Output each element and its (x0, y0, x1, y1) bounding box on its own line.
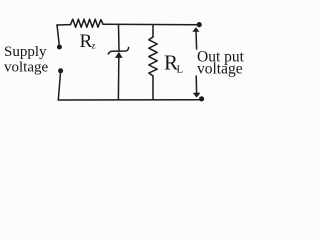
zener diode D1 anode triangle (115, 52, 123, 58)
output arrow up line (195, 31, 198, 50)
node supply terminal top (57, 45, 62, 50)
output arrow down line (195, 76, 197, 93)
wire zener branch lower (117, 58, 119, 100)
wire top-left segment (57, 24, 71, 26)
wire RL branch upper (152, 25, 154, 37)
node output terminal top (197, 22, 202, 27)
wire top from resistor to output node (103, 23, 199, 26)
zener diode D1 cathode bar (108, 47, 128, 54)
node output terminal bottom (199, 96, 204, 101)
wire left vertical lower segment (58, 73, 60, 101)
output arrowhead up (192, 27, 199, 31)
resistor RL zigzag (149, 37, 157, 76)
svg-text:Supply: Supply (4, 44, 47, 60)
node supply terminal bottom (58, 68, 63, 73)
wire left vertical upper segment (57, 25, 59, 45)
svg-text:voltage: voltage (197, 60, 243, 77)
wire zener branch upper (118, 25, 121, 51)
svg-text:voltage: voltage (4, 59, 48, 75)
wire RL branch lower (152, 76, 154, 100)
svg-text:L: L (177, 64, 184, 76)
svg-text:z: z (92, 41, 96, 51)
wire bottom (58, 99, 201, 101)
output arrowhead down (193, 93, 201, 98)
resistor Rz zigzag (71, 19, 104, 27)
